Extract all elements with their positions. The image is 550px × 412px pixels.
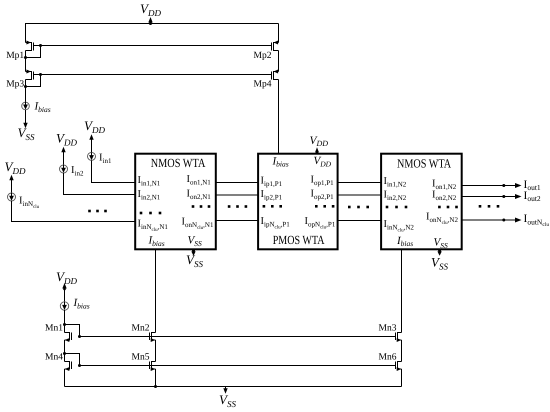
transistor Mp1 [6,41,40,61]
wire Mp3 drain to Ibias source [25,80,27,103]
node VDD for IinN [5,159,26,193]
current source Ibias bottom-left [60,297,89,310]
wire Mp1 drain to Mp3 source [25,51,27,72]
node VDD above U2 [310,135,329,154]
node VDD top [140,1,161,25]
wire VSS rail bottom [65,386,402,388]
wire Mn1 source to Mn4 drain [64,340,66,362]
svg-text:Iin2: Iin2 [71,165,84,178]
wire Mn4 gate-drain diode connection [63,352,81,367]
svg-text:NMOS WTA: NMOS WTA [397,156,451,170]
ground VSS below U1 [186,249,203,269]
wire U2 out3 to U3 in3 [338,220,382,222]
svg-text:VDD: VDD [84,118,105,135]
transistor Mp3 [6,70,40,90]
wire Mp3 gate-drain diode connection [24,73,42,88]
svg-text:Ibias: Ibias [73,297,90,310]
node VDD bottom-left [56,269,77,302]
current source Iin2 [60,165,84,178]
svg-text:VSS: VSS [18,125,35,142]
block U1 NMOS WTA [135,154,216,250]
node ellipsis between U1 and U2 [228,205,247,208]
wire VDD rail to Mp2 source [278,24,280,43]
wire Mp4 drain to PMOS WTA Ibias pin [278,80,280,154]
svg-text:IinNclu: IinNclu [19,196,40,211]
node ellipsis U1 inputs [140,212,162,215]
transistor Mp4 [254,70,279,90]
node ellipsis outputs [479,205,500,208]
current source IinNclu [8,193,40,210]
current source Iin1 [88,152,112,165]
block U2 PMOS WTA [258,154,338,250]
transistor Mp2 [254,41,279,61]
transistor Mn2 [132,324,156,342]
wire output Iout1 [462,183,522,188]
wire U2 out2 to U3 in2 [338,194,382,196]
wire Iin2 to NMOS WTA1 input 2 [64,173,136,195]
svg-text:Mp3: Mp3 [6,79,24,89]
svg-text:VDD: VDD [5,159,26,176]
wire gate bus Mn1 Mn2 Mn3 [80,336,396,338]
ground VSS bottom [219,387,236,410]
svg-text:Ibias: Ibias [34,101,51,114]
wire gate bus Mn4 Mn5 Mn6 [80,365,396,367]
transistor Mn6 [379,353,402,371]
node ellipsis U3 outputs [438,206,458,209]
node ellipsis U2 inputs [263,205,282,208]
wire VDD rail to Mp1 source [25,24,27,43]
transistor Mn4 [45,353,72,371]
wire U1 Ibias pin to Mn2 drain [155,249,157,332]
wire Mn1 gate-drain diode connection [63,323,81,338]
wire gate bus Mp3 to Mp4 [41,74,272,76]
svg-text:Mn1: Mn1 [45,324,63,334]
wire Mp2 drain to Mp4 source [278,51,280,72]
svg-text:VDD: VDD [56,269,77,286]
svg-text:VDD: VDD [56,131,77,148]
wire IinN to NMOS WTA1 input 3 [12,201,136,222]
wire Mn5 source to VSS rail [154,369,157,388]
svg-text:VDD: VDD [310,135,329,148]
wire output IoutN [462,218,522,223]
svg-text:Mn3: Mn3 [379,324,397,334]
svg-text:VSS: VSS [431,255,448,272]
wire U3 Ibias pin to Mn3 drain [401,249,403,332]
wire output Iout2 [462,194,522,199]
svg-text:NMOS WTA: NMOS WTA [151,156,206,170]
node ellipsis U2 outputs [315,205,334,208]
node ellipsis U3 inputs [386,206,408,209]
svg-text:IoutNclu: IoutNclu [524,213,550,228]
svg-text:PMOS WTA: PMOS WTA [273,233,325,247]
wire Mn3 source to Mn6 drain [401,340,403,362]
wire Iin1 to NMOS WTA1 input 1 [92,160,136,182]
wire U1 out2 to PMOS WTA in2 [216,194,258,196]
wire gate bus Mp1 to Mp2 [41,45,272,47]
wire Mp1 gate-drain diode connection [24,44,42,59]
svg-text:Mn5: Mn5 [132,353,150,363]
svg-text:Iin1: Iin1 [99,153,112,166]
wire Mn2 source to Mn5 drain [155,340,157,362]
wire Mn6 source to VSS rail [401,369,403,387]
wire Ibias to Mn1 drain [64,310,66,332]
wire VDD rail [25,23,279,25]
current source Ibias top-left [22,101,51,114]
wire U1 out1 to PMOS WTA in1 [216,182,258,184]
transistor Mn5 [132,353,156,371]
node VDD for Iin2 [56,131,77,166]
wire Mn4 source to VSS rail [64,369,66,387]
block U3 NMOS WTA [381,154,462,250]
svg-text:VSS: VSS [219,392,236,409]
svg-text:VSS: VSS [186,252,203,269]
svg-text:Mp4: Mp4 [254,79,272,89]
node ellipsis between U2 and U3 [348,206,369,209]
svg-text:VDD: VDD [140,1,161,18]
node ellipsis U1 outputs [192,205,211,208]
wire U1 out3 to PMOS WTA in3 [216,220,258,222]
svg-text:Mn4: Mn4 [45,353,63,363]
wire U2 out1 to U3 in1 [338,182,382,184]
svg-text:Mn2: Mn2 [132,324,150,334]
svg-text:Mp1: Mp1 [6,51,24,61]
svg-text:Mp2: Mp2 [254,51,272,61]
svg-text:Mn6: Mn6 [379,353,397,363]
node ellipsis input sources [88,210,107,213]
transistor Mn1 [45,324,72,342]
ground VSS below U3 [431,249,448,271]
transistor Mn3 [379,324,402,342]
ground VSS top-left [18,110,35,142]
node VDD for Iin1 [84,118,105,152]
